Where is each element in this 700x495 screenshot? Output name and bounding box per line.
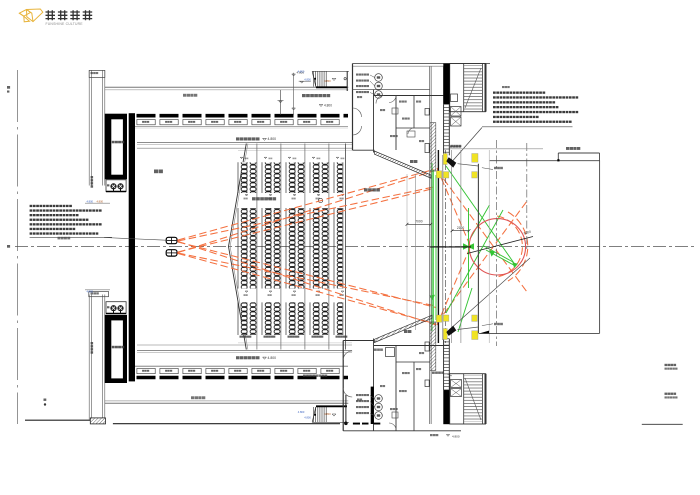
svg-text:4.800: 4.800 (304, 77, 311, 81)
svg-text:4.800: 4.800 (268, 137, 277, 141)
svg-text:4.800: 4.800 (452, 435, 460, 439)
svg-text:4.800: 4.800 (324, 79, 331, 83)
svg-text:4.800: 4.800 (324, 104, 332, 108)
svg-text:4.800: 4.800 (268, 356, 277, 360)
svg-text:2100: 2100 (457, 226, 465, 230)
svg-text:4.800: 4.800 (298, 410, 305, 414)
svg-text:4.800: 4.800 (97, 199, 104, 203)
svg-text:4.800: 4.800 (87, 290, 94, 294)
svg-text:4.800: 4.800 (87, 199, 94, 203)
svg-text:4.800: 4.800 (298, 70, 305, 74)
svg-text:FUNSHINE CULTURE: FUNSHINE CULTURE (46, 22, 84, 26)
svg-text:4.800: 4.800 (324, 412, 331, 416)
svg-text:7000: 7000 (415, 220, 423, 224)
svg-text:4.800: 4.800 (304, 416, 311, 420)
